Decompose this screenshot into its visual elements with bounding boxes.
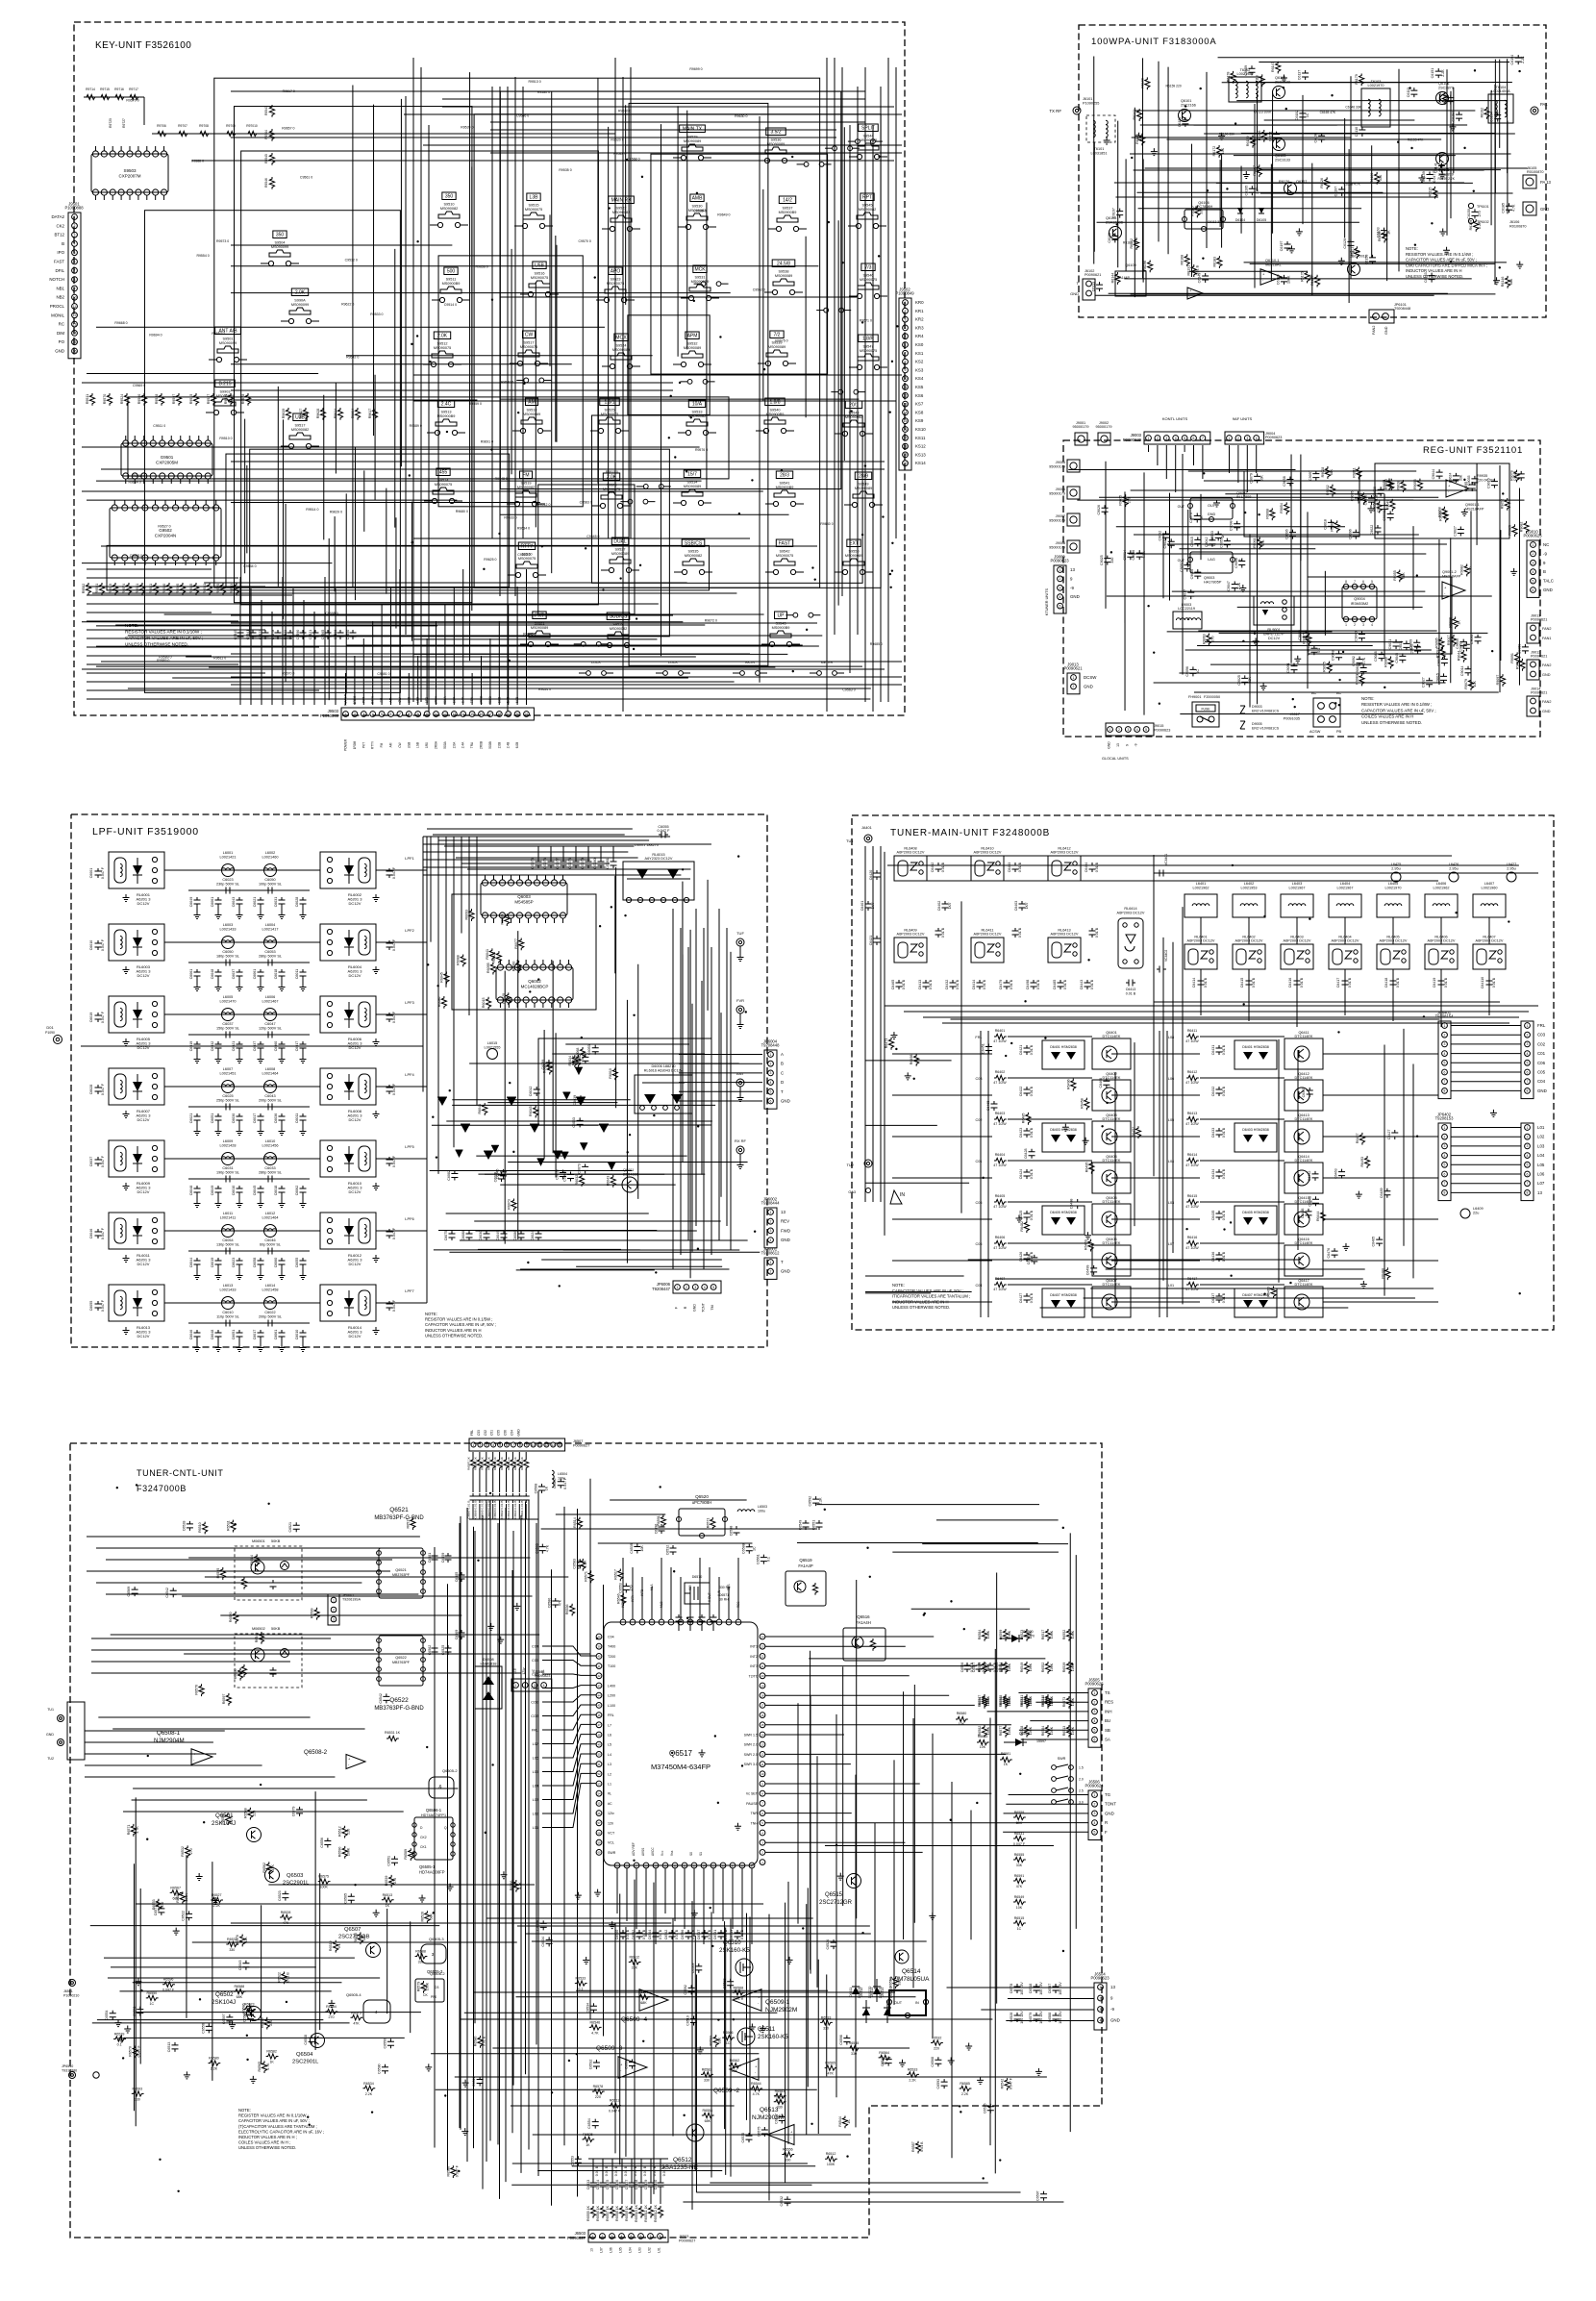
box Q6506-2: [415, 1979, 444, 2002]
switch S9519 (FM): [520, 471, 533, 479]
svg-text:R6495: R6495: [1085, 1163, 1088, 1173]
svg-text:DC12V: DC12V: [137, 1334, 150, 1338]
svg-text:3: 3: [74, 233, 76, 237]
svg-text:L6005: L6005: [223, 995, 234, 999]
svg-text:SPLIT: SPLIT: [861, 126, 875, 132]
svg-text:R9670 0: R9670 0: [282, 672, 294, 676]
relay RL6412: [1048, 856, 1081, 881]
svg-text:GND: GND: [1537, 1088, 1547, 1093]
inductor L6404: [1329, 894, 1361, 917]
svg-text:B: B: [781, 1062, 784, 1066]
svg-text:100K: 100K: [1029, 1726, 1033, 1735]
svg-text:R9625 0: R9625 0: [484, 558, 496, 562]
svg-text:EXT: EXT: [849, 541, 859, 547]
svg-text:MS0900B9: MS0900B9: [442, 282, 461, 286]
svg-text:R9097: R9097: [1496, 675, 1500, 686]
LPF filter row 6: [95, 1229, 102, 1238]
svg-text:C6498: C6498: [1026, 980, 1030, 990]
caps row lpf: [449, 1231, 456, 1240]
svg-text:100K: 100K: [1050, 1663, 1054, 1671]
svg-text:R6086: R6086: [437, 997, 441, 1008]
svg-text:TU1: TU1: [846, 838, 854, 843]
tm left bus branches: [865, 1182, 969, 1184]
svg-text:R6539: R6539: [114, 2032, 125, 2036]
svg-text:MS090075: MS090075: [601, 413, 618, 416]
svg-text:T: T: [781, 1260, 784, 1264]
svg-text:R9588 0: R9588 0: [191, 160, 204, 163]
svg-text:C6553: C6553: [618, 1583, 622, 1593]
svg-text:R9540: R9540: [162, 584, 166, 594]
svg-text:95000179: 95000179: [1049, 546, 1065, 550]
svg-text:2R0B: 2R0B: [480, 741, 484, 749]
svg-text:MS090089: MS090089: [684, 346, 701, 350]
svg-text:GND: GND: [692, 1304, 696, 1312]
svg-text:IN: IN: [900, 1192, 905, 1198]
svg-text:13: 13: [1116, 743, 1120, 747]
svg-text:R6532: R6532: [932, 2036, 942, 2039]
resistor R6417: [1186, 1282, 1199, 1287]
svg-text:P1090888: P1090888: [64, 206, 84, 211]
svg-text:RTTY: RTTY: [371, 740, 375, 749]
connector JP6401: [1438, 1021, 1451, 1099]
svg-text:28/3: 28/3: [780, 473, 789, 479]
IC Q9004 IR3M03M2: [1342, 587, 1377, 619]
svg-text:18: 18: [761, 1694, 764, 1698]
svg-text:NOTE:: NOTE:: [1406, 246, 1418, 251]
svg-text:S9529: S9529: [687, 136, 698, 139]
svg-text:APM: APM: [687, 334, 698, 339]
IC Q6522 MB3763PF-G-BND: [379, 1636, 423, 1686]
svg-text:24: 24: [761, 1635, 764, 1638]
svg-text:6: 6: [905, 343, 907, 347]
svg-text:C6010: C6010: [232, 1186, 236, 1196]
svg-text:R65512 1K: R65512 1K: [654, 2204, 658, 2222]
svg-text:2.4C: 2.4C: [441, 402, 452, 408]
svg-text:R6514: R6514: [573, 1517, 577, 1528]
relay RL6408: [894, 856, 927, 881]
svg-text:&: &: [438, 1785, 442, 1790]
svg-text:0.01 B: 0.01 B: [902, 979, 906, 989]
svg-text:C6542: C6542: [379, 1693, 383, 1704]
svg-text:8: 8: [1444, 1191, 1446, 1195]
svg-text:Q9003: Q9003: [1204, 576, 1214, 580]
svg-text:R9672 0: R9672 0: [705, 618, 717, 622]
svg-text:0.1: 0.1: [766, 1557, 770, 1562]
svg-text:L3B: L3B: [530, 195, 539, 201]
svg-text:CK1: CK1: [420, 1845, 427, 1849]
resistor R6414: [1186, 1158, 1199, 1163]
svg-text:FRL: FRL: [1537, 1023, 1546, 1028]
svg-text:R6584: R6584: [250, 1555, 254, 1565]
svg-text:#L: #L: [608, 1792, 611, 1796]
svg-text:12: 12: [904, 394, 908, 398]
svg-text:4.7K: 4.7K: [412, 1850, 416, 1858]
component field reg extra: [1189, 666, 1196, 676]
svg-text:0.047 F: 0.047 F: [392, 1155, 396, 1167]
svg-text:-: -: [620, 2068, 622, 2073]
IC Q9002 L7909: [1190, 498, 1233, 519]
svg-text:1C: 1C: [1306, 113, 1309, 117]
svg-text:L0021953: L0021953: [1241, 887, 1258, 890]
svg-text:DC12V: DC12V: [349, 901, 362, 906]
svg-text:D6405 HSM2838: D6405 HSM2838: [1242, 1211, 1269, 1214]
svg-text:4.7K: 4.7K: [753, 2092, 761, 2096]
connector J9014: [1527, 696, 1539, 716]
svg-text:LPF7: LPF7: [405, 1288, 414, 1293]
svg-text:68K: 68K: [172, 1896, 179, 1900]
svg-text:0.01 B: 0.01 B: [1222, 1168, 1226, 1179]
svg-text:R6564: R6564: [879, 2051, 889, 2055]
svg-text:L6013: L6013: [223, 1284, 234, 1288]
svg-text:C6532: C6532: [780, 2196, 784, 2207]
svg-text:R6562: R6562: [262, 1863, 266, 1873]
svg-text:D6407 HSM2838: D6407 HSM2838: [1050, 1293, 1077, 1297]
svg-text:A6P2003 DC12V: A6P2003 DC12V: [897, 933, 925, 937]
svg-text:270: 270: [393, 1878, 397, 1884]
svg-text:6: 6: [1362, 580, 1364, 584]
switch S990A (2.0K): [291, 288, 308, 296]
svg-text:100K: 100K: [1008, 1663, 1011, 1671]
resistor column under J6507: [470, 1458, 475, 1470]
svg-text:14: 14: [558, 1443, 561, 1447]
svg-text:KEY-UNIT F3526100: KEY-UNIT F3526100: [95, 40, 191, 51]
svg-text:R9668 0: R9668 0: [114, 321, 127, 325]
svg-text:L0021428: L0021428: [220, 1144, 237, 1148]
svg-text:R6512: R6512: [826, 2152, 836, 2156]
svg-text:ERZ-V10V681CS: ERZ-V10V681CS: [1252, 710, 1280, 713]
svg-text:6: 6: [1527, 1172, 1529, 1176]
svg-text:9: 9: [74, 287, 76, 290]
svg-text:LOCK: LOCK: [591, 661, 601, 664]
svg-text:+: +: [348, 1757, 351, 1762]
resistor R6404: [994, 1158, 1007, 1163]
svg-text:L07: L07: [1537, 1181, 1545, 1186]
unit box TUNER-CNTL-UNIT F3247000B: [70, 1443, 1102, 2238]
svg-text:C6569: C6569: [127, 1587, 131, 1597]
svg-text:6.0B: 6.0B: [515, 742, 519, 749]
svg-text:P0090623: P0090623: [1090, 1976, 1110, 1981]
wire grid key-unit extra horizontals: [231, 244, 452, 246]
svg-text:R6469: R6469: [1085, 1239, 1088, 1250]
VCO section M06502 50KB: [235, 1634, 302, 1688]
svg-text:L01: L01: [1168, 1284, 1174, 1288]
svg-text:26: 26: [625, 1863, 629, 1867]
svg-text:MS090089: MS090089: [611, 552, 629, 556]
svg-text:100K: 100K: [1050, 1630, 1054, 1638]
svg-text:2.2K: 2.2K: [1255, 187, 1259, 194]
svg-text:R6411: R6411: [1187, 1029, 1197, 1033]
svg-text:1: 1: [74, 215, 76, 219]
svg-text:47K: 47K: [1016, 1885, 1023, 1888]
svg-text:S9519: S9519: [521, 482, 532, 486]
switch S9549 (28/9): [855, 472, 871, 480]
inductor L6003: [222, 937, 235, 949]
svg-text:10/A: 10/A: [692, 402, 703, 408]
svg-text:9: 9: [905, 368, 907, 372]
tc right horizontals extra: [816, 1504, 1039, 1506]
svg-text:1: 1: [1444, 1024, 1446, 1028]
svg-text:MS090089: MS090089: [767, 142, 785, 146]
svg-text:J9008: J9008: [1056, 541, 1065, 545]
svg-text:C9026: C9026: [1097, 505, 1101, 515]
connector J6506: [1088, 1790, 1101, 1840]
svg-text:C6050: C6050: [264, 878, 275, 882]
svg-text:100K: 100K: [986, 1663, 990, 1671]
svg-text:TALC: TALC: [1543, 579, 1554, 584]
svg-text:LPF5: LPF5: [405, 1144, 414, 1149]
svg-text:7: 7: [1527, 1080, 1529, 1084]
svg-text:R65511 1K: R65511 1K: [644, 2205, 648, 2222]
svg-text:R6578: R6578: [593, 2085, 604, 2088]
svg-text:1C: 1C: [726, 2041, 731, 2045]
svg-text:R6550: R6550: [234, 1668, 237, 1679]
svg-text:2: 2: [761, 1851, 763, 1855]
svg-text:200p 500V SL: 200p 500V SL: [259, 1099, 282, 1103]
svg-text:C6431: C6431: [1211, 1045, 1215, 1056]
inductor L6007: [222, 1081, 235, 1093]
transistor Q6414 DTC114EK: [1284, 1163, 1323, 1193]
transistor Q6411 DTC114EK: [1284, 1038, 1323, 1069]
svg-text:L01: L01: [1537, 1125, 1545, 1130]
svg-text:2: 2: [1533, 552, 1534, 556]
IC Q6514 NJM78L05UA: [889, 1990, 926, 2015]
svg-text:R6159 220: R6159 220: [1166, 85, 1182, 88]
svg-text:C6598: C6598: [536, 1920, 539, 1931]
svg-text:MB3763PF: MB3763PF: [392, 1573, 411, 1577]
svg-text:4: 4: [1094, 1719, 1096, 1723]
svg-text:R6552: R6552: [1062, 1630, 1066, 1640]
svg-text:R9078: R9078: [1509, 470, 1513, 481]
svg-text:4.7K: 4.7K: [518, 1882, 522, 1889]
svg-text:0.01 B: 0.01 B: [941, 862, 945, 872]
svg-text:R6555: R6555: [1014, 1853, 1025, 1857]
svg-text:C9035: C9035: [1467, 476, 1471, 487]
svg-text:D6401 HSM2838: D6401 HSM2838: [1242, 1045, 1269, 1049]
svg-text:R6589: R6589: [404, 1849, 408, 1860]
svg-text:R6512: R6512: [338, 1826, 342, 1837]
svg-text:C9036: C9036: [1132, 550, 1135, 561]
transistor Q6518: [895, 1950, 909, 1963]
svg-text:R6553: R6553: [889, 1977, 893, 1988]
capacitor C6431: [1216, 1045, 1223, 1055]
svg-text:C6113 33K: C6113 33K: [1208, 220, 1224, 224]
svg-text:R9574: R9574: [122, 584, 126, 594]
svg-text:1KV: 1KV: [948, 902, 952, 909]
svg-text:R6146: R6146: [1501, 277, 1505, 288]
svg-text:37: 37: [731, 1863, 735, 1867]
IC Q6106 uPC7808H: [1185, 210, 1223, 229]
svg-text:44: 44: [597, 1694, 601, 1698]
svg-text:HA17805P: HA17805P: [1204, 581, 1222, 585]
svg-text:R6015: R6015: [482, 997, 486, 1008]
svg-text:RL6414: RL6414: [1124, 907, 1136, 911]
svg-text:-: -: [755, 2070, 757, 2075]
svg-text:0.01 B: 0.01 B: [1222, 1251, 1226, 1262]
svg-text:R6511: R6511: [610, 2099, 619, 2103]
inductor L6013: [222, 1297, 235, 1310]
svg-text:R6597: R6597: [222, 1694, 226, 1705]
svg-text:R6552: R6552: [1041, 1663, 1045, 1673]
svg-text:COILES VALUES ARE IN H: COILES VALUES ARE IN H: [1361, 714, 1413, 719]
svg-text:Q9004: Q9004: [1354, 597, 1364, 601]
svg-text:22: 22: [761, 1655, 764, 1659]
svg-text:47 1/2W: 47 1/2W: [993, 1081, 1007, 1085]
svg-text:C6024: C6024: [531, 1231, 535, 1241]
svg-text:R9028: R9028: [1396, 481, 1400, 491]
svg-text:R9589 0: R9589 0: [157, 659, 169, 663]
switch S9535 (SSB/CS): [682, 539, 705, 547]
svg-text:1: 1: [770, 1211, 772, 1214]
connector JP6601 TS206195A: [328, 1594, 339, 1625]
svg-text:C9561 0: C9561 0: [300, 176, 312, 180]
transistor Q6502 2SK104J: [247, 2007, 262, 2021]
caps between top relays: [935, 863, 942, 872]
svg-text:C9027: C9027: [1453, 526, 1457, 537]
svg-text:R6534: R6534: [363, 2082, 374, 2086]
driver grid buses: [980, 1031, 982, 1317]
svg-text:12Ii: 12Ii: [608, 1821, 613, 1825]
svg-text:C9017: C9017: [1184, 589, 1187, 600]
svg-text:NB1: NB1: [56, 286, 64, 290]
svg-text:R6135: R6135: [1428, 188, 1432, 198]
svg-text:15: 15: [904, 419, 908, 423]
svg-text:7: 7: [1444, 1182, 1446, 1186]
switch S9514 (455): [436, 468, 450, 476]
svg-text:47: 47: [597, 1723, 601, 1727]
svg-text:C05: C05: [532, 1659, 538, 1663]
svg-text:1: 1: [1527, 1024, 1529, 1028]
svg-text:R6473: R6473: [885, 1038, 888, 1049]
svg-text:R6570: R6570: [129, 2046, 133, 2057]
svg-text:R9630 0: R9630 0: [735, 114, 747, 118]
svg-text:C6425: C6425: [1019, 1211, 1023, 1221]
svg-text:18: 18: [497, 713, 501, 716]
svg-text:MS090089: MS090089: [531, 626, 548, 630]
svg-text:C6525: C6525: [983, 2103, 986, 2113]
unit box REG-UNIT F3521101: [1063, 440, 1540, 737]
svg-text:JP6510: JP6510: [62, 2064, 73, 2068]
svg-text:S9533: S9533: [692, 411, 703, 414]
svg-text:0.01 B: 0.01 B: [1095, 927, 1099, 938]
svg-text:USB: USB: [407, 697, 411, 704]
svg-text:FAN2: FAN2: [1542, 627, 1552, 631]
svg-text:R6520: R6520: [229, 1612, 233, 1622]
svg-text:DC12V: DC12V: [349, 1117, 362, 1122]
diode array D6403 HSM2838: [1234, 1123, 1277, 1152]
caps between PLL ICs: [432, 1553, 438, 1563]
svg-text:10K: 10K: [959, 1722, 965, 1726]
op-amp Q6509-4: [639, 1989, 668, 2012]
svg-text:C9573: C9573: [259, 630, 262, 640]
svg-text:C6593: C6593: [936, 2079, 940, 2089]
svg-text:11: 11: [435, 713, 438, 716]
svg-text:C6043: C6043: [264, 1094, 275, 1098]
svg-text:P1090: P1090: [45, 1031, 55, 1035]
svg-text:40: 40: [597, 1655, 601, 1659]
svg-text:0.01 B: 0.01 B: [956, 979, 960, 989]
svg-text:C6028: C6028: [295, 897, 299, 908]
svg-text:C6554: C6554: [587, 2118, 591, 2129]
svg-text:P0090623: P0090623: [1265, 436, 1282, 439]
svg-text:C6030: C6030: [232, 1113, 236, 1124]
svg-text:C05: C05: [497, 1430, 501, 1436]
svg-text:4: 4: [1533, 570, 1534, 574]
switch S9501 (ANT A/B): [215, 327, 241, 335]
svg-text:100K: 100K: [986, 1697, 990, 1706]
svg-text:AVCC: AVCC: [651, 1847, 655, 1856]
svg-text:58: 58: [597, 1831, 601, 1835]
svg-text:8: 8: [1345, 580, 1347, 584]
svg-text:L03: L03: [638, 2247, 642, 2253]
svg-text:R9715: R9715: [100, 88, 110, 91]
svg-text:FUSE: FUSE: [1201, 708, 1210, 712]
svg-text:R6517: R6517: [613, 1569, 617, 1580]
MCU left pins: [596, 1634, 602, 1639]
transistor Q6401 DTC114EK: [1092, 1038, 1131, 1069]
svg-text:1C: 1C: [1196, 669, 1200, 674]
svg-text:R6591: R6591: [1014, 1874, 1025, 1878]
svg-text:FAN2: FAN2: [1542, 700, 1552, 704]
svg-text:5: 5: [905, 335, 907, 338]
svg-text:13: 13: [1070, 567, 1075, 572]
svg-text:C6150: C6150: [1443, 94, 1447, 105]
svg-text:R9011: R9011: [1352, 467, 1356, 477]
svg-text:280p 500V SL: 280p 500V SL: [259, 955, 282, 959]
svg-text:CXP2004N: CXP2004N: [155, 534, 177, 538]
svg-text:2: 2: [770, 1063, 772, 1066]
svg-text:C9063: C9063: [1210, 531, 1214, 541]
svg-text:NOTE:: NOTE:: [238, 2108, 251, 2113]
svg-text:8: 8: [660, 2235, 661, 2238]
svg-text:C6012: C6012: [529, 1087, 533, 1097]
svg-text:L6402: L6402: [1244, 882, 1255, 886]
svg-text:R6534: R6534: [999, 1663, 1003, 1673]
svg-text:D6006 188270: D6006 188270: [652, 1064, 676, 1068]
transformer T6103: [1361, 88, 1390, 127]
svg-text:R6527: R6527: [212, 1893, 222, 1897]
MCU right pins: [760, 1634, 765, 1639]
svg-text:2.5: 2.5: [1079, 1789, 1084, 1793]
svg-text:100 15V: 100 15V: [1039, 1982, 1043, 1995]
svg-text:J6503: J6503: [679, 2235, 688, 2238]
connector: [1521, 1021, 1534, 1099]
svg-text:190p 500V SL: 190p 500V SL: [216, 1171, 239, 1175]
svg-text:8: 8: [408, 713, 410, 716]
svg-text:R6458: R6458: [1080, 1098, 1084, 1109]
svg-text:D6403 HSM2838: D6403 HSM2838: [1050, 1128, 1077, 1132]
connector JP6001: [764, 1258, 777, 1279]
svg-text:0.01 B: 0.01 B: [1030, 1044, 1034, 1055]
svg-text:C6578: C6578: [1010, 1984, 1013, 1994]
svg-text:KS3: KS3: [915, 367, 924, 372]
svg-text:57: 57: [597, 1821, 601, 1825]
svg-text:R6010: R6010: [609, 1068, 612, 1079]
svg-text:200p 500V SL: 200p 500V SL: [259, 1315, 282, 1319]
svg-text:100K: 100K: [1008, 1697, 1011, 1706]
svg-text:3: 3: [1094, 1710, 1096, 1713]
svg-text:2: 2: [602, 2235, 604, 2238]
svg-text:0.01 B: 0.01 B: [675, 1929, 679, 1939]
svg-text:MS090075: MS090075: [860, 278, 877, 282]
svg-text:0.047 F: 0.047 F: [101, 1155, 105, 1167]
svg-text:C9583 0: C9583 0: [580, 500, 592, 504]
lpf mid horizontals: [452, 1099, 630, 1101]
svg-text:35: 35: [711, 1863, 715, 1867]
svg-text:R6415: R6415: [1187, 1194, 1198, 1198]
svg-text:MOX: MOX: [615, 336, 627, 341]
svg-text:32: 32: [683, 1863, 686, 1867]
relay RL6406: [1425, 944, 1458, 969]
